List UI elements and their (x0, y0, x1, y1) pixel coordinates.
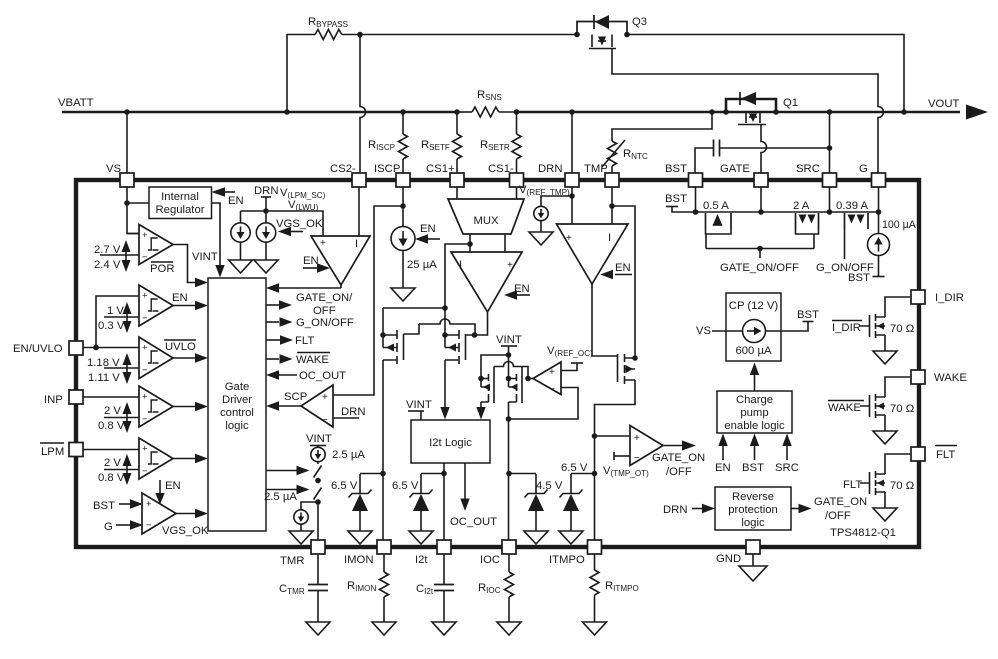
svg-text:+: + (142, 343, 148, 354)
svg-text:GATE_ON/: GATE_ON/ (296, 292, 353, 304)
wire OC_OUT in (266, 370, 346, 382)
svg-text:+: + (320, 238, 326, 249)
svg-text:2.5 µA: 2.5 µA (332, 449, 365, 461)
junction IMON zener tap (380, 471, 386, 477)
svg-text:GATE: GATE (720, 163, 750, 175)
svg-text:BST: BST (93, 500, 115, 512)
wire OC comp output (528, 378, 533, 380)
svg-text:2 A: 2 A (793, 200, 810, 212)
junction RSNS right (514, 109, 520, 115)
wire sense amp output (475, 312, 488, 335)
op-amp current sense (451, 252, 522, 312)
wire DRN pin to VBATT (571, 112, 573, 173)
wire VINT from regulator to gate driver (192, 203, 225, 278)
ground I_DIR FET (873, 351, 897, 364)
zener 6.5V I2t (392, 474, 444, 532)
label FLT gate (843, 479, 914, 492)
svg-text:EN: EN (715, 462, 731, 474)
wire LPM pin to plus (83, 449, 139, 451)
svg-text:protection: protection (728, 504, 778, 516)
svg-text:VGS_OK: VGS_OK (162, 525, 209, 537)
svg-text:Regulator: Regulator (156, 204, 205, 216)
transistor WAKE output FET (860, 377, 911, 431)
wire DRN arrow into reverse logic (663, 504, 715, 516)
svg-text:I: I (459, 259, 462, 271)
label VGS_OK arrow (276, 218, 323, 236)
svg-text:+: + (507, 260, 513, 271)
transistor M2 mirror (445, 308, 475, 364)
capacitor CTMR (279, 554, 328, 622)
wire TMP to output FET drain (612, 206, 635, 358)
label Q3 (632, 16, 647, 28)
pin IMON (344, 540, 391, 566)
svg-text:EN: EN (228, 195, 244, 207)
wire branch to mirror (445, 244, 470, 308)
current source 25uA (391, 227, 415, 289)
svg-text:Driver: Driver (222, 394, 252, 406)
junction ITMPO zener tap (592, 471, 598, 477)
junction DRN on rail (569, 109, 575, 115)
svg-text:WAKE: WAKE (934, 372, 967, 384)
wire reverse logic output arrow (791, 496, 867, 522)
svg-text:−: − (142, 252, 148, 263)
svg-text:DRN: DRN (254, 185, 278, 197)
block CP 12V (726, 293, 781, 361)
wire OC gate link (494, 362, 528, 379)
junction on VBATT at VS (124, 109, 130, 115)
svg-text:logic: logic (225, 420, 249, 432)
svg-text:BST: BST (797, 309, 819, 321)
wire EN into CS2- amp (303, 255, 330, 273)
wire CS1- to MUX (516, 187, 518, 199)
svg-text:Gate: Gate (225, 381, 250, 393)
junction bracket (757, 246, 763, 252)
svg-text:+: + (146, 499, 152, 510)
wire mirror top link (383, 307, 445, 309)
wire VS into CP (696, 325, 743, 337)
resistor RISCP (368, 112, 408, 173)
wire M5 source to ITMPO line (595, 380, 636, 540)
svg-text:EN: EN (303, 255, 319, 267)
wire top rail Q3 to VOUT drop (627, 35, 904, 113)
wire DRN sources rail (241, 211, 324, 236)
wire GATE_ON/OFF bracket (706, 249, 814, 275)
wire VINT to M3 (481, 355, 509, 379)
label 2 V threshold (98, 402, 132, 433)
junction M5 drain (632, 355, 638, 361)
resistor RSETF (421, 112, 462, 173)
wire POR output (173, 245, 208, 288)
svg-text:BST: BST (848, 272, 870, 284)
wire OC comp plus to VREF_OC stub (561, 363, 583, 371)
svg-text:INP: INP (44, 394, 63, 406)
svg-text:−: − (146, 520, 152, 531)
wire Q1 gate to GATE pin with hop over cap line (761, 125, 767, 174)
svg-text:Q3: Q3 (632, 16, 647, 28)
svg-text:POR: POR (150, 263, 174, 275)
wire DRN pin into temp amp plus (571, 187, 573, 224)
pin SRC (796, 163, 837, 187)
ground FLT FET (873, 508, 897, 521)
current source ILPM_SC (231, 211, 250, 260)
svg-text:OFF: OFF (313, 305, 336, 317)
svg-text:25 µA: 25 µA (407, 259, 437, 271)
svg-text:0.5 A: 0.5 A (703, 200, 729, 212)
transistor FLT output FET (860, 454, 911, 508)
svg-text:−: − (634, 453, 640, 464)
node VOUT label (928, 98, 959, 110)
label 25 uA (407, 259, 437, 271)
wire Q3 gate to G pin with hop over VOUT (612, 49, 884, 174)
wire CS2- amp output (340, 285, 342, 288)
svg-text:0.8 V: 0.8 V (98, 420, 125, 432)
switch 2 (314, 478, 322, 500)
label V(REF_OC) (547, 345, 593, 358)
op-amp SCP comparator (301, 385, 333, 427)
svg-text:+: + (142, 444, 148, 455)
label Q1 (783, 97, 798, 109)
pin GATE (720, 163, 768, 187)
wire TMR node to pin (317, 500, 319, 540)
wire GATE pin drop (760, 187, 762, 212)
junction Q1 right (773, 109, 779, 115)
svg-text:CS2-: CS2- (330, 163, 356, 175)
svg-text:G: G (859, 163, 868, 175)
wire CS2- drop with hop over VBATT (360, 35, 366, 174)
svg-text:DRN: DRN (341, 406, 365, 418)
svg-text:I_DIR: I_DIR (832, 322, 861, 334)
block Gate Driver control logic (208, 278, 266, 531)
svg-text:2.5 µA: 2.5 µA (264, 491, 297, 503)
wire EN into sense amp (504, 283, 530, 300)
label 2.5 uA discharge (264, 491, 297, 503)
svg-text:100 µA: 100 µA (882, 219, 917, 231)
transistor M4 (509, 355, 523, 403)
op-amp EN comparator (139, 285, 173, 326)
junction EN/UVLO (93, 345, 99, 351)
wire VS internal drop (127, 187, 139, 234)
junction RNTC tap (709, 109, 715, 115)
transistor M3 (481, 367, 494, 404)
wire mirror gate rail with hop (419, 319, 475, 335)
wire EN into regulator (212, 187, 244, 207)
svg-text:IOC: IOC (480, 554, 500, 566)
wire M2 source to I2t arrow (440, 360, 449, 420)
resistor RIMON (347, 554, 389, 622)
svg-text:Reverse: Reverse (732, 491, 774, 503)
op-amp CS2- current amp (311, 236, 370, 285)
svg-text:−: − (322, 415, 328, 426)
ground below CTMR (306, 622, 330, 635)
op-amp VGS_OK comparator (142, 493, 176, 534)
pin TMR (280, 540, 325, 567)
svg-text:control: control (220, 407, 254, 419)
ground VREF_TMP (529, 232, 553, 245)
node VBATT label (58, 97, 94, 109)
pin TMP (584, 163, 619, 187)
transistor Q3 (577, 15, 627, 49)
resistor RNTC (602, 112, 712, 173)
wire G_ON/OFF out (266, 317, 354, 329)
svg-text:BST: BST (665, 193, 687, 205)
svg-text:enable logic: enable logic (724, 420, 785, 432)
junction MUX left leg (467, 241, 473, 247)
pin ITMPO (549, 540, 602, 566)
wire EN into temp amp (600, 262, 632, 279)
label 2.7 V threshold (94, 240, 131, 272)
svg-text:EN: EN (165, 480, 181, 492)
svg-text:VINT: VINT (192, 251, 218, 263)
wire OC_OUT down arrow (450, 463, 497, 528)
capacitor CI2t (416, 554, 454, 622)
junction top rail at VOUT (901, 109, 907, 115)
wire VBATT main rail (62, 111, 960, 114)
svg-text:TMR: TMR (280, 555, 304, 567)
svg-text:6.5 V: 6.5 V (331, 480, 358, 492)
svg-text:2.4 V: 2.4 V (94, 259, 121, 271)
zener 6.5V TMR-IMON (331, 474, 383, 532)
svg-text:70 Ω: 70 Ω (890, 323, 914, 335)
junction Q3 left (574, 32, 580, 38)
wire MUX to amp right (504, 234, 506, 252)
svg-text:0.39 A: 0.39 A (836, 200, 869, 212)
svg-text:Q1: Q1 (783, 97, 798, 109)
wire EN into VGS_OK (155, 480, 180, 505)
svg-text:VINT: VINT (306, 433, 332, 445)
svg-text:IMON: IMON (344, 554, 374, 566)
svg-text:+: + (142, 291, 148, 302)
svg-text:/OFF: /OFF (666, 466, 692, 478)
label EN (172, 292, 188, 304)
current source 100uA (868, 212, 917, 277)
svg-text:OC_OUT: OC_OUT (299, 370, 346, 382)
pin CS1- (488, 163, 524, 187)
svg-text:I2t: I2t (415, 554, 428, 566)
transistor pair 0.5A source (703, 200, 731, 249)
svg-text:I: I (608, 232, 611, 244)
resistor RIOC (478, 554, 514, 622)
wire top rail RBYPASS to Q3 (360, 34, 577, 36)
svg-text:VOUT: VOUT (928, 98, 959, 110)
transistor M5 temp output FET (618, 354, 636, 384)
wire UVLO minus input (104, 367, 139, 369)
svg-text:0.8 V: 0.8 V (98, 472, 125, 484)
op-amp POR comparator (139, 225, 173, 265)
svg-text:TPS4812-Q1: TPS4812-Q1 (830, 527, 896, 539)
pin WAKE (911, 370, 967, 384)
wire SRC pin drop (829, 187, 831, 212)
wire switch control 1 (266, 466, 310, 475)
current source 2.5uA discharge (294, 502, 318, 531)
svg-text:Internal: Internal (161, 191, 199, 203)
wire G into VGS_OK minus (104, 520, 143, 533)
zener 4.5V IOC (509, 474, 563, 532)
block Charge pump enable logic (717, 391, 792, 433)
svg-text:LPM: LPM (41, 446, 64, 458)
svg-text:600 µA: 600 µA (735, 345, 771, 357)
op-amp LPM comparator (139, 438, 173, 479)
label BST stub driver (665, 193, 696, 212)
svg-text:2.7 V: 2.7 V (94, 244, 121, 256)
junction SRC on rail (827, 109, 833, 115)
wire INP output (173, 402, 208, 411)
label VINT OC (496, 334, 522, 357)
current source CP circle (743, 320, 766, 343)
pin EN/UVLO (13, 341, 83, 355)
svg-text:VINT: VINT (496, 334, 522, 346)
ground WAKE FET (873, 431, 897, 444)
junction BST rail (693, 209, 699, 215)
wire switch control 2 (266, 485, 310, 494)
ground below GND pin (739, 566, 767, 581)
wire EN into 25uA (415, 223, 440, 244)
wire M4 drain to IOC line (508, 402, 510, 540)
svg-text:Charge: Charge (736, 394, 773, 406)
svg-text:SCP: SCP (284, 391, 307, 403)
svg-text:TMP: TMP (584, 163, 608, 175)
svg-text:EN: EN (615, 262, 631, 274)
svg-text:+: + (566, 233, 572, 244)
svg-text:VBATT: VBATT (58, 97, 94, 109)
wire GATE_ON/OFF out (266, 292, 353, 317)
svg-text:WAKE: WAKE (828, 402, 861, 414)
wire G pin drop (878, 187, 880, 212)
junction I2t zener tap (441, 471, 447, 477)
svg-text:G_ON/OFF: G_ON/OFF (296, 317, 354, 329)
svg-text:+: + (142, 230, 148, 241)
svg-text:pump: pump (740, 407, 768, 419)
wire SCP plus from ISCP (333, 206, 403, 395)
pin CS2- (330, 163, 366, 187)
label V(LPM_SC) (280, 187, 326, 200)
wire VOUT arrowhead (966, 105, 988, 120)
svg-text:+: + (634, 433, 640, 444)
pin IOC (480, 540, 516, 566)
svg-text:DRN: DRN (663, 504, 687, 516)
label V(LWU) (288, 199, 319, 212)
svg-text:MUX: MUX (473, 215, 499, 227)
wire VS pin drop (126, 112, 128, 173)
junction between switches (315, 478, 321, 484)
junction RBYPASS left on VBATT (284, 109, 290, 115)
svg-text:1.11 V: 1.11 V (88, 372, 120, 384)
svg-text:DRN: DRN (538, 163, 562, 175)
wire CP to BST stub (766, 309, 820, 331)
pin LPM (40, 443, 83, 459)
label SCP (284, 391, 307, 403)
wire TMP_OT output arrow (652, 441, 705, 479)
label VINT I2t stub (406, 399, 432, 420)
op-amp INP comparator (139, 386, 173, 427)
op-amp OC comparator (533, 362, 561, 395)
ground 2.5uA discharge (289, 531, 313, 544)
resistor RSETR (480, 112, 521, 173)
pin GND (716, 540, 760, 565)
pin G (859, 163, 886, 187)
wire INP pin to plus (83, 396, 139, 398)
svg-text:+: + (549, 367, 555, 378)
svg-text:GATE_ON: GATE_ON (652, 452, 705, 464)
junction RSNS left (454, 109, 460, 115)
junction IOC feedback (506, 416, 512, 422)
resistor RSNS (457, 89, 517, 117)
svg-text:4.5 V: 4.5 V (536, 480, 563, 492)
ground zener3 (524, 531, 548, 544)
junction M1 drain (380, 332, 386, 338)
zener 6.5V ITMPO (560, 462, 595, 531)
wire EN arrow into enable logic (715, 434, 731, 475)
svg-text:VS: VS (696, 325, 712, 337)
block Internal Regulator (149, 187, 212, 219)
svg-text:FLT: FLT (295, 335, 314, 347)
wire BST into VGS_OK plus (93, 499, 143, 512)
wire I2t output to pin (443, 463, 445, 540)
svg-text:0.3 V: 0.3 V (98, 320, 125, 332)
svg-text:GND: GND (716, 553, 741, 565)
wire charge pump enable arrow (750, 363, 759, 392)
wire MUX to amp left (469, 234, 471, 252)
junction M4 node (506, 376, 512, 382)
block MUX (448, 199, 524, 234)
junction mirror link (442, 305, 448, 311)
svg-text:FLT: FLT (936, 449, 955, 461)
label V(TMP_OT) (603, 465, 649, 478)
wire M3 drain to I2t arrow (476, 402, 485, 420)
svg-text:2 V: 2 V (104, 457, 121, 469)
junction VINT OC (506, 352, 512, 358)
junction IOC zener tap (506, 471, 512, 477)
ground zener1 (348, 531, 372, 544)
wire SCP output into box (266, 401, 301, 410)
ground below CI2t (432, 622, 456, 635)
wire WAKE out (266, 353, 330, 367)
wire POR plus input (127, 233, 139, 235)
wire temp amp output to FET gate (592, 284, 618, 356)
label TPS4812-Q1 (830, 527, 896, 539)
wire FLT out (266, 335, 314, 347)
transistor I_DIR output FET (860, 297, 911, 351)
label 1.18 V threshold (87, 353, 132, 384)
transistor M1 mirror (383, 308, 419, 364)
svg-text:G: G (104, 521, 113, 533)
junction Q3 right (624, 32, 630, 38)
svg-text:ISCP: ISCP (374, 163, 400, 175)
chip TPS4812-Q1 outline (76, 180, 919, 547)
junction RBYPASS right (357, 32, 363, 38)
junction M2 drain (442, 332, 448, 338)
junction ITMPO comp tap (592, 433, 598, 439)
svg-text:1 V: 1 V (107, 305, 124, 317)
junction SRC rail (827, 209, 833, 215)
wire EN comp output (173, 301, 208, 310)
svg-text:WAKE: WAKE (296, 354, 329, 366)
ground zener2 (409, 531, 433, 544)
op-amp UVLO comparator (139, 337, 173, 379)
pin VS (106, 163, 134, 187)
op-amp TMP_OT comparator (630, 426, 663, 466)
svg-text:/OFF: /OFF (825, 510, 851, 522)
transistor pair 0.39A sink (816, 200, 874, 274)
wire UVLO output (173, 353, 208, 362)
svg-text:−: − (549, 384, 555, 395)
svg-text:+: + (142, 392, 148, 403)
label VINT TMR (306, 433, 332, 448)
svg-text:ITMPO: ITMPO (549, 554, 585, 566)
wire SRC pin riser (829, 112, 831, 173)
transistor Q1 (726, 92, 776, 125)
svg-text:SRC: SRC (796, 163, 820, 175)
block Reverse protection logic (715, 487, 791, 530)
